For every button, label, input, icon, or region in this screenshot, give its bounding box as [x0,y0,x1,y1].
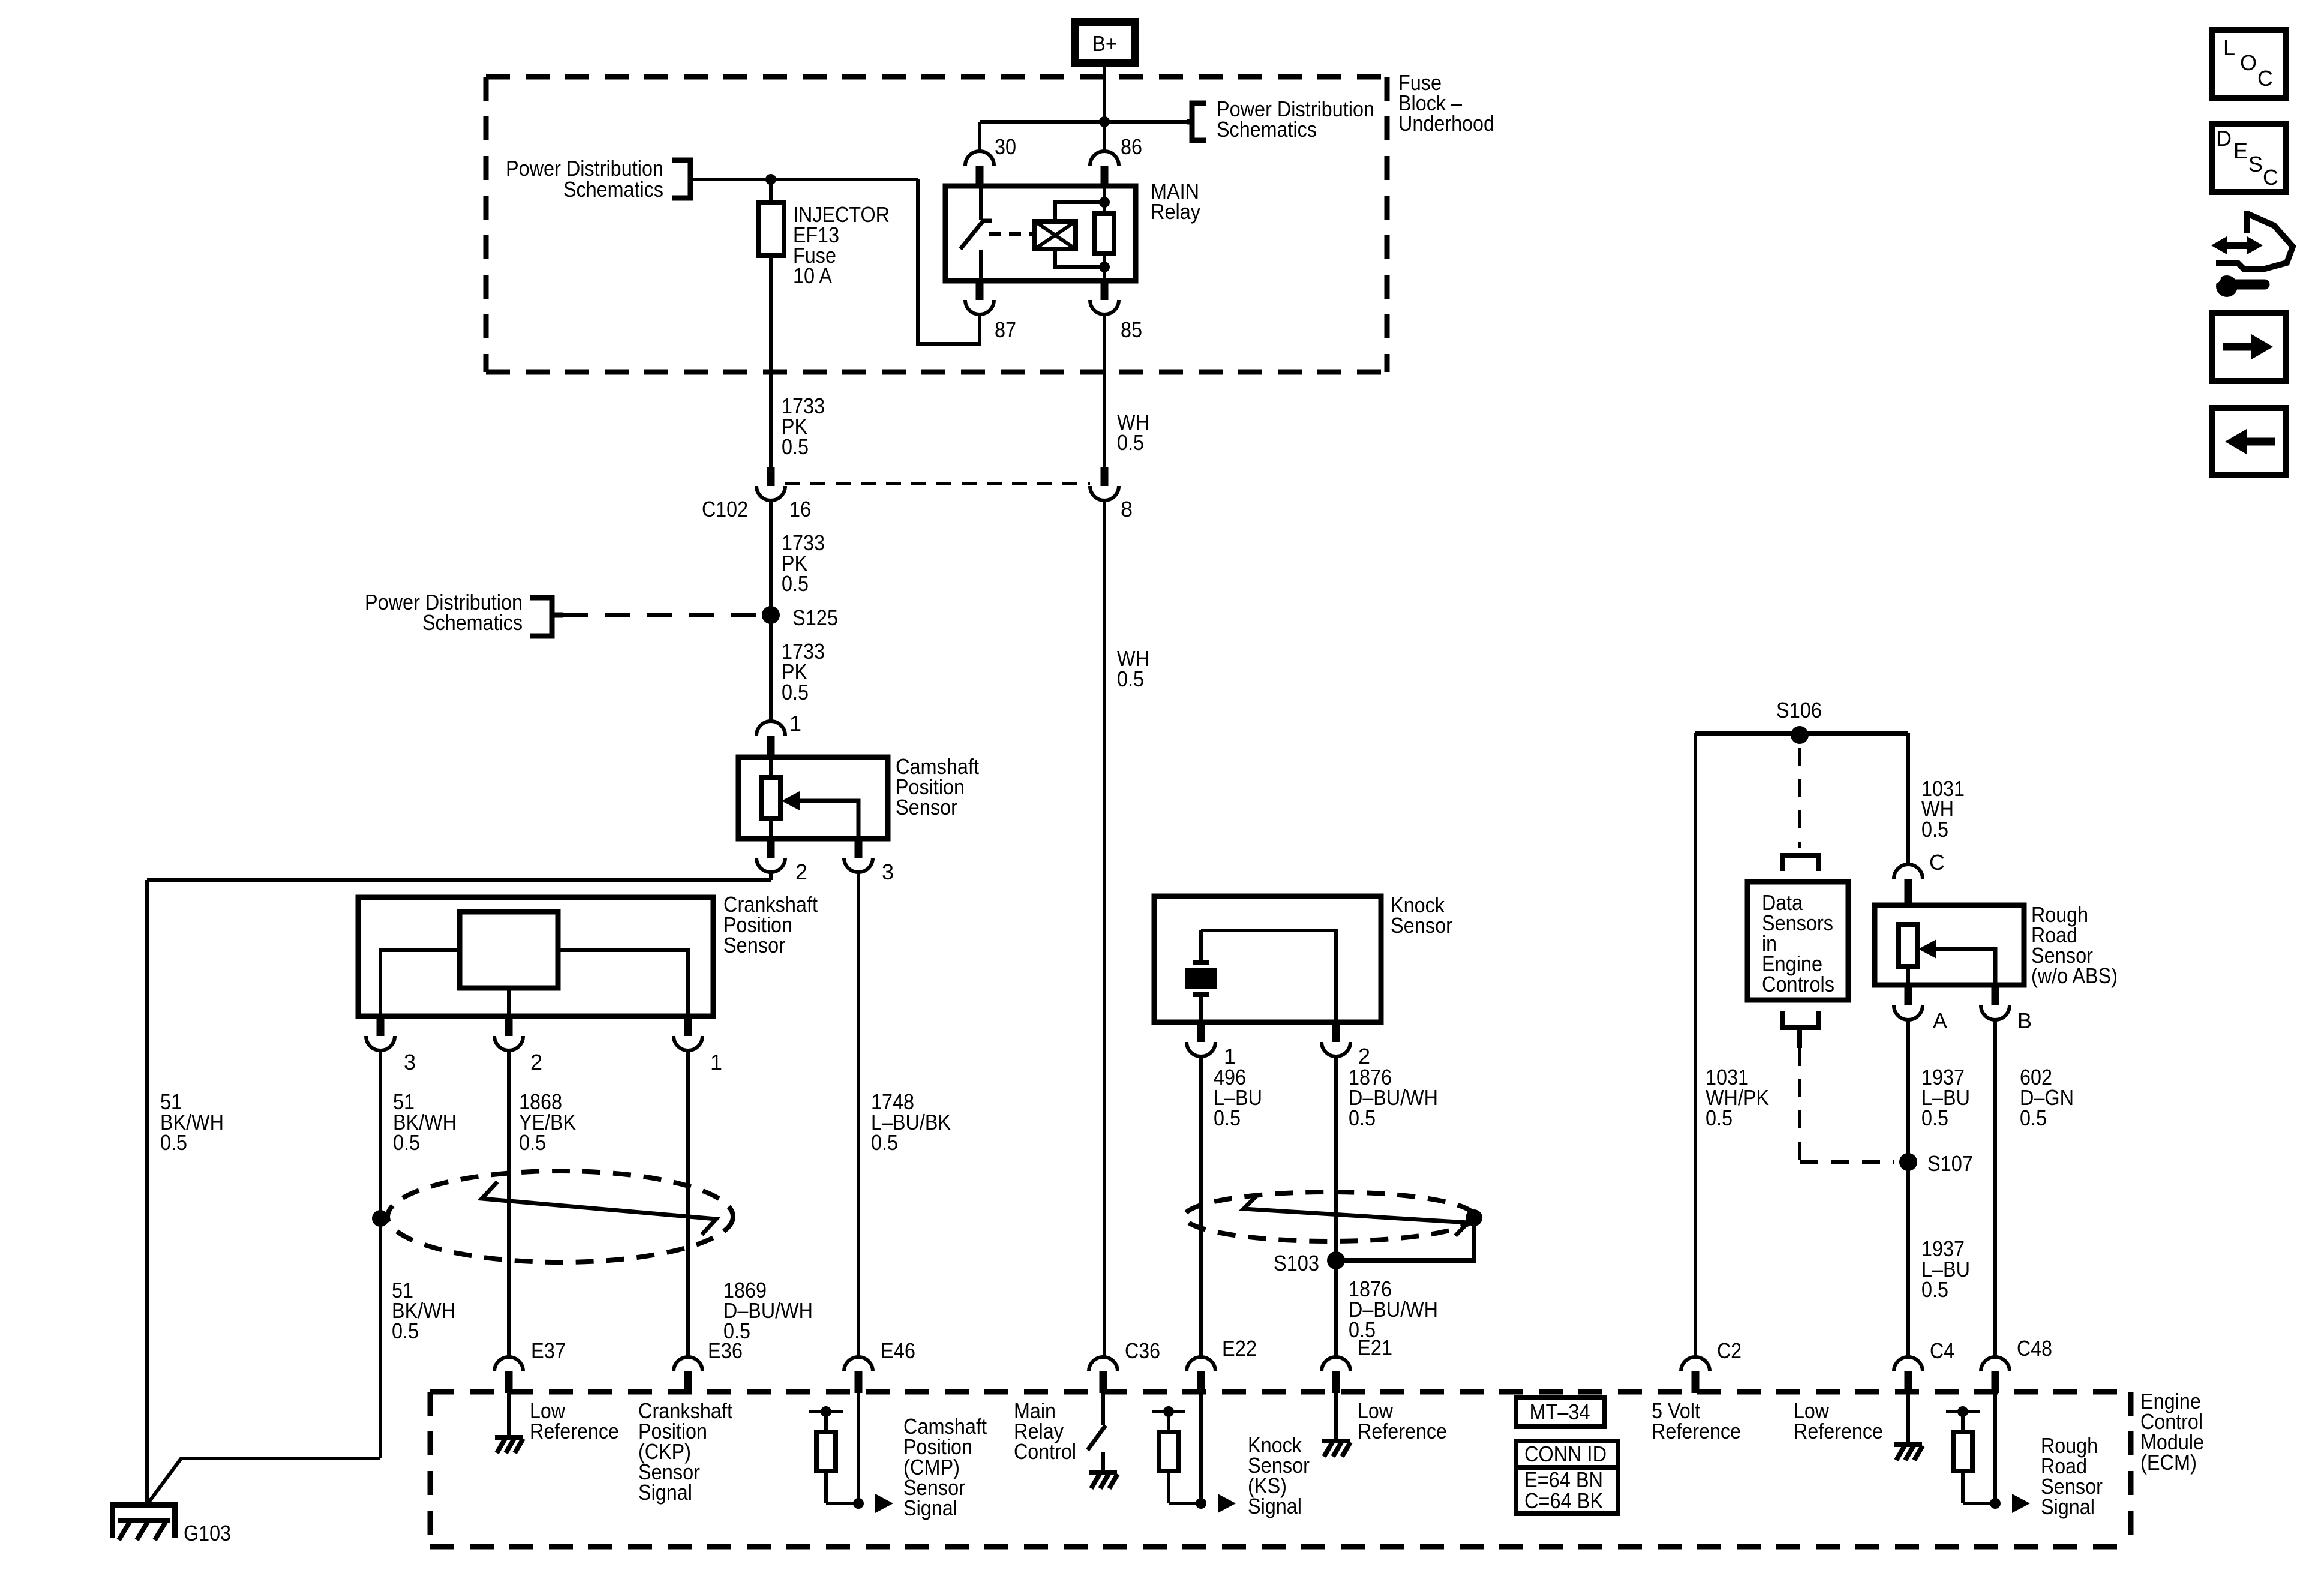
svg-text:C2: C2 [1717,1338,1742,1363]
data sensors bottom staple [1782,1011,1818,1028]
svg-text:Signal: Signal [903,1496,957,1520]
twisted pair ellipse knock [1184,1192,1475,1241]
wire B+ down to bus [1103,67,1106,151]
CKP inner element box [460,912,558,988]
staple stem [1797,1028,1802,1048]
E36 connector [674,1357,702,1371]
svg-text:E22: E22 [1222,1336,1257,1361]
icon DESC box [2212,124,2286,192]
svg-text:C36: C36 [1125,1338,1160,1363]
knock piezo element [1199,930,1203,962]
splice S106 [1791,726,1809,744]
wire knock pin2 to S103 [1334,1056,1338,1260]
CKP inner lead center [507,988,511,1016]
CKP inner lead right [558,950,688,1016]
svg-text:Signal: Signal [638,1480,692,1505]
knock internal loop [1201,930,1336,1022]
svg-text:30: 30 [995,134,1016,159]
C2 connector [1681,1357,1710,1371]
bracket to Power Distribution Schematics (left) [672,160,690,198]
svg-text:C4: C4 [1930,1338,1954,1363]
svg-text:0.5: 0.5 [1117,430,1144,455]
C4 connector [1894,1357,1923,1371]
relay coil top lead [1055,202,1104,221]
bracket to Power Distribution Schematics (S125) [530,598,552,636]
E37 ground [495,1435,523,1440]
knock pin 2 connector [1332,1022,1340,1042]
forward arrow [2223,343,2254,351]
svg-text:Reference: Reference [530,1419,619,1443]
relay coil box with X [1035,221,1076,249]
svg-text:E: E [2233,139,2248,163]
svg-text:8: 8 [1121,497,1133,521]
fuse block dashed boundary [486,74,1387,80]
CKP inner lead left [380,950,460,1016]
svg-text:B+: B+ [1092,31,1117,56]
CMP pin 3 connector [855,839,863,858]
S103 branch wire [1336,1225,1474,1260]
svg-text:S103: S103 [1274,1251,1319,1275]
MT-34 box [1516,1397,1604,1427]
CMP pin 2 connector [767,839,775,858]
wire pin3 branch to ground [147,1458,380,1505]
svg-text:C: C [2263,165,2278,190]
C102 dashed connector line [785,482,1090,485]
knock pin 1 connector [1197,1022,1205,1042]
svg-text:Sensor: Sensor [896,795,957,819]
rough road C connector [1894,864,1923,879]
svg-text:Reference: Reference [1794,1419,1883,1443]
back arrow [2244,438,2275,446]
relay coil top node [1099,197,1110,208]
bracket to Power Distribution Schematics (right) [1192,103,1206,140]
dashed link to S107 [1798,1048,1801,1162]
wire S125 to CMP pin 1 [769,615,773,721]
RRS pin B connector [1992,985,1999,1005]
wire C102-16 to S125 [769,500,773,615]
connector C102 pin 8 [1101,467,1109,486]
wire S107 to C4 [1906,1162,1910,1357]
C36 internal switch [1101,1393,1105,1425]
E46 internal pullup and arrow [857,1393,860,1503]
svg-text:L: L [2223,35,2235,60]
wire C102-8 to C36 [1103,500,1106,1357]
relay resistor [1103,187,1106,214]
fuse EF13 [769,179,773,203]
wire CKP pin 2 to E37 [507,1050,511,1357]
svg-text:2: 2 [530,1050,542,1074]
twist symbol knock [1244,1196,1468,1236]
wire CMP pin2 to left run [769,872,773,880]
svg-text:Schematics: Schematics [563,177,663,202]
svg-text:0.5: 0.5 [1214,1106,1241,1130]
dashed link to S125 [552,613,563,618]
C48 internal pullup and arrow [1993,1393,1997,1503]
junction on pin 3 wire [372,1210,389,1227]
rough road sensor box [1875,905,2024,985]
svg-text:0.5: 0.5 [2020,1106,2047,1130]
wire CMP pin3 to E46 [857,872,860,1357]
RRS internal resistor [1899,924,1917,966]
svg-text:0.5: 0.5 [519,1130,546,1155]
svg-text:Signal: Signal [1248,1494,1302,1518]
wire switch feed to pin 87 [918,179,980,344]
svg-text:(w/o ABS): (w/o ABS) [2031,963,2118,988]
svg-text:E21: E21 [1358,1335,1392,1360]
svg-text:Reference: Reference [1652,1419,1741,1443]
svg-text:S107: S107 [1927,1151,1973,1176]
junction node on B+ bus [1099,116,1110,127]
svg-text:C48: C48 [2017,1336,2052,1361]
relay coil bottom node [1099,262,1110,272]
bus wire pin30 to bracket [980,120,1187,124]
icon back arrow box [2212,408,2286,475]
dashed drop S106 to data sensors [1798,748,1801,848]
svg-text:1: 1 [710,1050,722,1074]
svg-text:S106: S106 [1776,698,1822,722]
svg-text:C=64 BK: C=64 BK [1524,1488,1603,1513]
C4 ground [1894,1442,1922,1447]
relay switch [979,187,983,220]
C36 connector [1089,1357,1118,1371]
splice S107 [1899,1153,1917,1171]
CKP pin 2 connector [505,1016,513,1036]
wire S103 to E21 [1334,1260,1338,1357]
ECM dashed boundary [430,1389,2131,1395]
CKP pin 1 connector [684,1016,692,1036]
svg-text:Relay: Relay [1151,199,1200,224]
svg-text:0.5: 0.5 [871,1130,898,1155]
svg-text:Signal: Signal [2041,1494,2095,1519]
svg-text:C: C [2257,66,2273,91]
svg-text:0.5: 0.5 [1921,1106,1948,1130]
C48 connector [1981,1357,2010,1371]
svg-text:CONN ID: CONN ID [1524,1442,1607,1466]
svg-text:A: A [1933,1008,1947,1033]
relay pin 86 connector [1090,151,1119,166]
svg-text:Control: Control [1014,1439,1076,1464]
E22 internal pullup and arrow [1199,1393,1203,1503]
svg-text:Underhood: Underhood [1398,111,1494,136]
left ground leg wire [145,880,149,1505]
svg-text:0.5: 0.5 [160,1130,187,1155]
svg-text:S: S [2248,152,2263,176]
svg-text:Sensor: Sensor [723,933,785,957]
connector C102 pin 16 [767,467,775,486]
wire S106 to C2 [1694,733,1697,1357]
svg-text:3: 3 [882,860,894,884]
E37 internal ground wire [507,1393,511,1436]
twist end node [1466,1209,1482,1226]
svg-text:Controls: Controls [1762,972,1834,996]
icon LOC box [2212,30,2286,98]
CMP internal wiper arrow [800,801,858,839]
svg-text:Schematics: Schematics [422,610,523,635]
E46 connector [844,1357,873,1371]
wire CKP pin 3 down [379,1050,382,1458]
icon connector wrench [2244,211,2250,233]
svg-text:E46: E46 [881,1338,915,1363]
ground G103 [110,1502,178,1508]
camshaft position sensor box [738,757,888,839]
S106 splice bus [1695,731,1908,736]
relay pin 30 connector [965,151,994,166]
wire pin30 drop [978,122,981,151]
icon forward arrow box [2212,313,2286,381]
svg-text:85: 85 [1121,317,1142,342]
svg-text:O: O [2240,50,2257,75]
twist symbol CKP [482,1182,716,1235]
B+ battery feed box [1071,18,1139,67]
svg-text:0.5: 0.5 [392,1319,419,1343]
svg-text:G103: G103 [184,1521,231,1545]
svg-text:0.5: 0.5 [782,434,809,459]
data sensors box [1747,882,1848,1000]
wire CKP pin 1 to E36 [686,1050,690,1357]
svg-text:C: C [1929,850,1945,875]
svg-text:1: 1 [789,711,801,736]
E21 ground [1322,1439,1350,1443]
wire knock pin1 to E22 [1199,1056,1203,1357]
relay pin 87 connector [976,281,984,300]
icon double arrow [2223,242,2251,249]
svg-text:Sensor: Sensor [1391,913,1452,938]
svg-text:E36: E36 [708,1338,743,1363]
svg-text:0.5: 0.5 [782,680,809,704]
C4 internal ground wire [1906,1393,1910,1443]
twisted pair ellipse CKP [388,1171,733,1262]
wire bracket to fuse and switch feed [690,178,918,181]
wire pin85 to C102-8 [1103,314,1106,467]
svg-text:0.5: 0.5 [1117,667,1144,691]
relay coil bottom lead [1055,249,1104,267]
crankshaft position sensor box [358,897,713,1016]
svg-text:0.5: 0.5 [393,1130,420,1155]
svg-text:0.5: 0.5 [782,571,809,596]
MAIN relay box [945,186,1136,281]
CMP sensor pin 1 connector [756,721,785,736]
RRS pin A connector [1905,985,1912,1005]
C36 internal ground [1089,1470,1117,1475]
E21 connector [1322,1357,1350,1371]
wire S106 to rough road C [1906,733,1910,864]
icon wrench [2216,275,2238,297]
wire horizontal to left ground leg [147,878,771,882]
svg-text:Reference: Reference [1358,1419,1447,1443]
CKP pin 3 connector [377,1016,385,1036]
E21 internal ground wire [1334,1393,1338,1439]
data sensors top staple [1782,855,1818,871]
svg-text:0.5: 0.5 [1706,1106,1733,1130]
svg-text:B: B [2017,1008,2032,1033]
splice S125 [762,606,780,624]
svg-text:2: 2 [795,860,807,884]
svg-text:E37: E37 [531,1338,566,1363]
relay actuation dashes [989,232,1033,236]
wire pin B to C48 [1993,1020,1997,1357]
CMP internal resistor [769,757,773,778]
conn id values box [1516,1467,1618,1514]
RRS internal wiper arrow [1936,949,1995,985]
svg-text:10 A: 10 A [793,263,832,288]
E22 connector [1187,1357,1215,1371]
svg-text:Schematics: Schematics [1217,117,1317,142]
wire pin A to S107 [1906,1020,1910,1162]
svg-text:3: 3 [404,1050,416,1074]
E37 connector [494,1357,523,1371]
svg-text:(ECM): (ECM) [2140,1450,2197,1475]
svg-text:0.5: 0.5 [1349,1106,1376,1130]
svg-text:MT–34: MT–34 [1530,1400,1590,1424]
svg-text:16: 16 [789,497,811,521]
svg-text:D: D [2216,126,2232,151]
svg-text:S125: S125 [792,605,838,630]
knock sensor box [1154,896,1381,1022]
CONN ID box [1516,1441,1618,1467]
svg-text:C102: C102 [702,497,748,521]
svg-text:86: 86 [1121,134,1142,159]
svg-text:0.5: 0.5 [1921,817,1948,842]
relay pin 85 connector [1101,281,1109,300]
fuse feed junction [765,174,776,185]
svg-text:0.5: 0.5 [1921,1277,1948,1302]
splice S103 [1327,1251,1345,1269]
svg-text:87: 87 [995,317,1016,342]
